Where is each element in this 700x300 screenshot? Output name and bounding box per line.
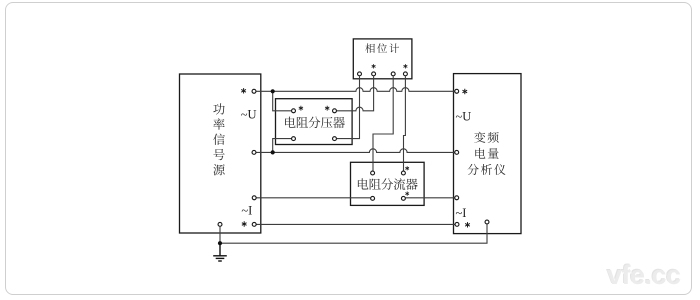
polarity mark * at source U terminal [241, 88, 246, 93]
polarity mark * at divider in [299, 106, 303, 111]
shunt terminal bottom-right* (403.4,198.4) [401, 196, 405, 200]
wire ground net: source gnd terminal down, across, up to analyzer gnd [220, 224, 487, 243]
label 电阻分流器 [358, 178, 418, 190]
phase meter pin1 (359.5,73.9) [358, 72, 362, 76]
node B junction dot (272.7,152.4) [271, 150, 275, 154]
source terminal I* (254.2,224.4) [252, 222, 256, 226]
ground junction dot (220,243.2) [218, 241, 222, 245]
svg-text:~I: ~I [241, 203, 252, 217]
wire W3b shunt output* to analyzer I (y=197.8) [406, 197, 455, 199]
label 变频电量分析仪 [467, 132, 505, 175]
wire P2 phase-meter pin2 to divider output, hops over P1 [337, 76, 374, 111]
source terminal U* (254,91.3) [252, 89, 256, 93]
frequency-conversion power analyzer box 变频电量分析仪 [454, 74, 522, 234]
polarity mark * at divider out [325, 106, 329, 111]
label ~I at analyzer [456, 206, 467, 220]
analyzer terminal I (456.7,197.8) [455, 196, 459, 200]
label 功率信号源 (vertical) [213, 103, 225, 175]
wire W1 source U* to analyzer U* (y=91.3) [256, 88, 454, 92]
label 相位计 [365, 43, 399, 53]
wire divider input down to node B [273, 139, 292, 153]
divider terminal in* (293.5,110.8) [292, 109, 296, 113]
source terminal I (254.2,197.8) [252, 196, 256, 200]
svg-text:~U: ~U [241, 107, 257, 121]
divider terminal out (334.5,138.6) [333, 137, 337, 141]
phase meter pin4 (405.4,73.9) [403, 72, 407, 76]
analyzer terminal U (456.7,152.4) [455, 150, 459, 154]
shunt terminal top-left (372.6,173) [371, 171, 375, 175]
phase meter pin3 (393.2,73.9) [391, 72, 395, 76]
polarity mark * at analyzer U terminal [462, 89, 467, 94]
svg-text:~I: ~I [456, 206, 467, 220]
source terminal U (254,152.4) [252, 150, 256, 154]
power signal source box 功率信号源 [180, 74, 261, 233]
polarity mark * at phase meter pin4 [403, 64, 407, 68]
node A junction dot (272.7,91.3) [271, 89, 275, 93]
polarity mark * at shunt bottom-right [405, 191, 409, 195]
phase meter box 相位计 [353, 39, 412, 79]
voltage divider box 电阻分压器 [276, 99, 353, 145]
svg-text:~U: ~U [456, 110, 472, 124]
polarity mark * at phase meter pin2 [372, 64, 376, 68]
wire divider input* up to node A [273, 91, 292, 111]
wire P4 phase-meter pin4 to shunt pot terminal* [404, 76, 406, 171]
wire W4 source I* to analyzer I* (y=224.4) [256, 223, 454, 225]
analyzer ground terminal (487,222) [485, 220, 489, 224]
analyzer terminal U* (456.7,91.3) [455, 89, 459, 93]
polarity mark * at shunt top-right [405, 166, 409, 170]
wire W2 source U to analyzer U (y=152.4) [256, 149, 454, 153]
polarity mark * at source I terminal [242, 221, 247, 226]
phase meter pin2 (373.6,73.9) [372, 72, 376, 76]
current shunt box 电阻分流器 [351, 162, 425, 205]
divider terminal in (293.5,138.6) [292, 137, 296, 141]
polarity mark * at analyzer I terminal [465, 222, 470, 227]
wire W3a source I to shunt input (y=197.8) [256, 197, 370, 199]
label ~U at source [241, 107, 257, 121]
shunt terminal bottom-left (372.6,198.4) [371, 196, 375, 200]
label 电阻分压器 [285, 117, 345, 129]
watermark vfe.cc [607, 262, 681, 289]
divider terminal out* (334.5,110.8) [333, 109, 337, 113]
wire P3 phase-meter pin3 to shunt pot terminal [373, 76, 393, 171]
label ~U at analyzer [456, 110, 472, 124]
ground symbol [213, 243, 227, 261]
shunt terminal top-right* (403.4,173) [401, 171, 405, 175]
source ground terminal (220,224.4) [218, 222, 222, 226]
analyzer terminal I* (457,224.4) [455, 222, 459, 226]
wire P1 phase-meter pin1 to divider output* [337, 76, 360, 138]
label ~I at source [241, 203, 252, 217]
